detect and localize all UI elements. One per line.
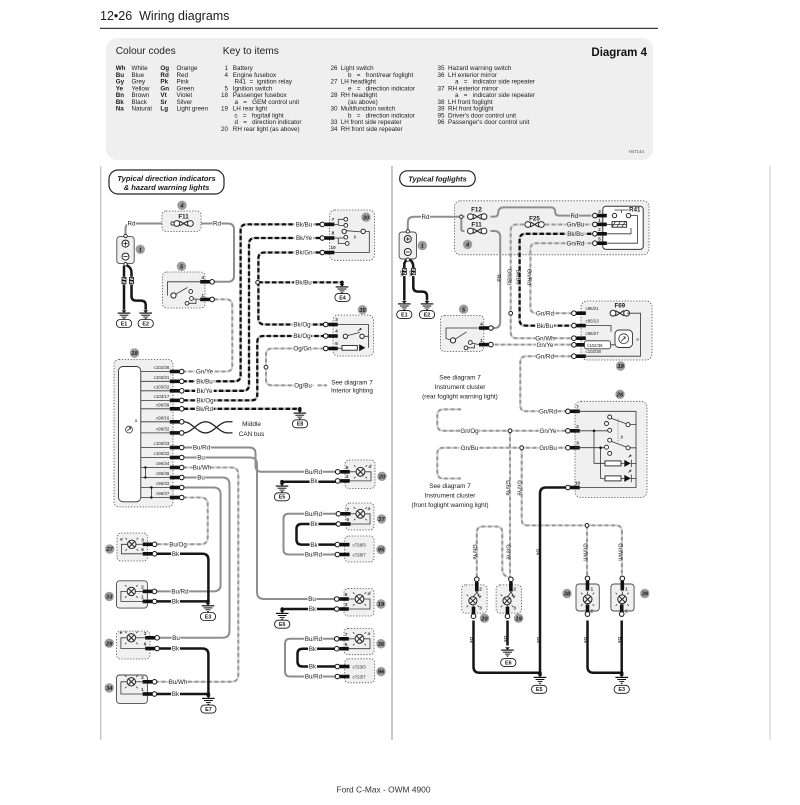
svg-text:5: 5 [335,341,338,347]
svg-text:96: 96 [437,119,445,126]
svg-text:Bu/Rd: Bu/Rd [171,589,189,596]
svg-text:35: 35 [359,308,366,314]
svg-text:Bu: Bu [197,455,205,462]
svg-text:26: 26 [330,65,338,72]
svg-text:33: 33 [106,595,113,601]
svg-text:39: 39 [642,592,649,598]
svg-text:Bk: Bk [616,637,622,644]
svg-text:30: 30 [363,215,370,221]
svg-text:Bu/Wh: Bu/Wh [169,679,188,686]
svg-text:Gn/Rd: Gn/Rd [536,310,554,317]
svg-text:c96/21: c96/21 [586,306,600,311]
svg-text:38: 38 [564,592,571,598]
svg-text:10: 10 [575,481,581,487]
svg-text:Bu/Rd: Bu/Rd [193,445,211,452]
svg-text:c95/13: c95/13 [586,319,600,324]
svg-text:10: 10 [330,245,336,251]
svg-text:6: 6 [141,547,144,553]
svg-text:Gn/Wh: Gn/Wh [581,543,587,560]
svg-text:Gn/Rd: Gn/Rd [539,409,557,416]
svg-text:Bk/Bu: Bk/Bu [537,323,554,330]
svg-text:Rd: Rd [422,214,430,221]
svg-text:RH front side repeater: RH front side repeater [341,126,403,133]
svg-text:2: 2 [576,424,579,430]
svg-text:e: e [120,538,123,543]
svg-text:36: 36 [437,72,445,79]
svg-text:34: 34 [106,686,113,692]
svg-text:Bk: Bk [310,478,318,485]
svg-text:Gn/Rd: Gn/Rd [525,269,531,285]
svg-text:a: a [368,507,371,512]
svg-text:c102/36: c102/36 [154,365,170,370]
svg-text:c99/32: c99/32 [156,427,170,432]
svg-text:Gn/Ye: Gn/Ye [540,428,558,435]
svg-text:Gn/Ye: Gn/Ye [471,544,477,559]
svg-text:c723/3: c723/3 [353,665,367,670]
svg-text:96: 96 [378,670,385,676]
svg-text:Diagram 4: Diagram 4 [591,47,647,59]
svg-text:RH rear light (as above): RH rear light (as above) [233,126,300,133]
svg-text:Typical direction indicators: Typical direction indicators [117,174,215,183]
svg-text:3: 3 [335,317,338,323]
svg-text:Gn/Ye: Gn/Ye [504,544,510,559]
svg-text:19: 19 [378,602,385,608]
svg-text:Gn/Ye: Gn/Ye [537,342,555,349]
svg-text:e: e [120,631,123,636]
svg-text:Bu/Rd: Bu/Rd [305,469,323,476]
svg-text:c100/32: c100/32 [154,451,170,456]
svg-text:Bk/Bu: Bk/Bu [515,270,521,285]
svg-text:2: 2 [513,587,516,593]
svg-text:2: 2 [141,675,144,681]
svg-text:Bk/Bu: Bk/Bu [196,379,213,386]
svg-text:F11: F11 [471,222,482,229]
svg-text:3: 3 [598,209,601,215]
svg-text:Bu/Rd: Bu/Rd [305,552,323,559]
svg-text:Bk: Bk [408,270,414,277]
svg-text:37: 37 [437,85,445,92]
svg-text:3: 3 [513,606,516,612]
svg-text:Bk: Bk [399,270,405,277]
svg-text:Bk: Bk [309,646,317,653]
svg-text:E6: E6 [505,661,512,667]
svg-text:c103/32: c103/32 [154,384,170,389]
svg-text:Gn/Bu: Gn/Bu [539,445,557,452]
svg-text:E3: E3 [205,614,212,620]
svg-text:Middle: Middle [242,421,261,428]
svg-text:b: b [620,434,623,440]
svg-text:c96/39: c96/39 [156,402,170,407]
svg-text:E2: E2 [142,321,149,327]
svg-text:Rd: Rd [495,274,501,281]
svg-text:E7: E7 [205,707,212,713]
svg-text:4: 4 [224,72,228,79]
svg-text:4: 4 [335,328,338,334]
svg-text:1: 1 [139,247,142,253]
svg-text:30: 30 [330,106,338,113]
svg-text:Natural: Natural [132,106,152,113]
svg-text:E5: E5 [279,495,286,501]
svg-text:c99/16: c99/16 [156,415,170,420]
svg-text:See diagram 7: See diagram 7 [439,375,481,382]
svg-text:4: 4 [480,321,483,327]
svg-text:Key to items: Key to items [223,46,279,57]
svg-text:27: 27 [330,79,338,86]
svg-text:Bk: Bk [172,646,180,653]
svg-text:c723/7: c723/7 [353,675,367,680]
svg-text:c96/34: c96/34 [156,461,170,466]
svg-text:3: 3 [144,631,147,637]
svg-text:E4: E4 [339,295,346,301]
svg-text:See diagram 7: See diagram 7 [429,483,471,490]
svg-text:F12: F12 [471,207,482,214]
svg-text:e: e [479,595,482,600]
svg-text:E8: E8 [297,422,304,428]
svg-text:c103/17: c103/17 [154,394,170,399]
svg-text:Na: Na [116,106,125,113]
svg-text:18: 18 [131,351,138,357]
svg-text:Bu: Bu [172,635,180,642]
svg-text:CAN bus: CAN bus [239,431,265,438]
svg-text:c96/37: c96/37 [156,491,170,496]
svg-text:6: 6 [345,592,348,598]
svg-text:Bu/Rd: Bu/Rd [305,636,323,643]
svg-text:& hazard warning lights: & hazard warning lights [124,183,210,192]
svg-text:3: 3 [346,474,349,480]
svg-text:F25: F25 [529,216,540,223]
svg-text:7: 7 [347,507,350,513]
svg-text:Gn/Ye: Gn/Ye [504,480,510,495]
svg-text:c102/30: c102/30 [586,349,602,354]
svg-text:Bu/Rd: Bu/Rd [305,674,323,681]
svg-text:18: 18 [617,364,624,370]
svg-text:Bk/Bu: Bk/Bu [295,280,312,287]
svg-text:See diagram 7: See diagram 7 [331,379,373,386]
svg-text:Bk: Bk [172,551,180,558]
svg-text:7: 7 [332,217,335,223]
svg-text:Rd: Rd [571,213,579,220]
svg-text:20: 20 [480,616,488,622]
svg-text:Gn/Bu: Gn/Bu [461,445,479,452]
svg-text:Bk/Ye: Bk/Ye [197,388,213,395]
svg-text:Bu/Wh: Bu/Wh [193,465,212,472]
svg-text:19: 19 [221,106,229,113]
svg-text:Passenger's door control unit: Passenger's door control unit [448,119,530,126]
svg-text:1: 1 [201,293,204,299]
svg-text:Bk: Bk [535,549,541,556]
svg-text:Light green: Light green [177,106,209,113]
svg-text:28: 28 [105,641,113,647]
svg-text:Og/Bu: Og/Bu [294,383,312,390]
svg-text:2: 2 [598,227,601,233]
svg-text:2: 2 [590,608,593,614]
svg-text:8: 8 [332,230,335,236]
svg-text:e: e [513,595,516,600]
svg-text:Colour codes: Colour codes [116,46,176,57]
svg-text:c728/7: c728/7 [353,553,367,558]
svg-text:Bk/Bu: Bk/Bu [296,222,313,229]
svg-text:(rear foglight warning light): (rear foglight warning light) [422,394,498,401]
svg-text:Bk: Bk [172,691,180,698]
svg-text:Gn/Rd: Gn/Rd [536,353,554,360]
svg-text:(front foglight warning light): (front foglight warning light) [411,502,488,509]
svg-text:3: 3 [141,538,144,544]
svg-text:Bu/Rd: Bu/Rd [305,511,323,518]
svg-text:Bu/Og: Bu/Og [169,542,187,549]
svg-text:Gn/Wh: Gn/Wh [616,543,622,560]
svg-text:Ford C-Max - OWM 4900: Ford C-Max - OWM 4900 [336,785,430,795]
svg-text:Interior lighting: Interior lighting [331,388,373,395]
svg-text:c103/31: c103/31 [154,375,170,380]
svg-text:c96/32: c96/32 [156,481,170,486]
svg-text:Bk: Bk [309,606,317,613]
svg-text:7: 7 [576,404,579,410]
svg-text:b: b [354,235,357,241]
svg-text:3: 3 [345,602,348,608]
svg-text:c100/33: c100/33 [154,441,170,446]
svg-text:Rd: Rd [213,221,221,228]
svg-text:Bk/Rd: Bk/Rd [196,406,213,413]
svg-text:E1: E1 [401,313,408,319]
svg-text:Instrument cluster: Instrument cluster [435,384,487,391]
svg-text:Bk: Bk [582,637,588,644]
svg-text:E3: E3 [618,687,625,693]
svg-text:37: 37 [378,517,385,523]
svg-text:Bu: Bu [197,475,205,482]
svg-text:Bk: Bk [310,542,318,549]
svg-text:R41: R41 [629,207,641,214]
svg-text:1: 1 [141,687,144,693]
svg-text:1: 1 [590,587,593,593]
svg-text:c96/36: c96/36 [156,471,170,476]
svg-text:c96/27: c96/27 [586,331,600,336]
svg-text:Instrument cluster: Instrument cluster [425,493,477,500]
svg-text:36: 36 [378,642,385,648]
svg-text:Bu: Bu [308,596,316,603]
svg-text:12•26 Wiring diagrams: 12•26 Wiring diagrams [100,9,229,23]
svg-text:5: 5 [598,237,601,243]
svg-text:20: 20 [378,474,386,480]
svg-text:1: 1 [625,587,628,593]
svg-text:4: 4 [201,275,204,281]
svg-text:Bk/Og: Bk/Og [293,333,311,340]
svg-text:E1: E1 [121,321,128,327]
svg-text:Bk: Bk [309,664,317,671]
svg-text:28: 28 [330,92,338,99]
svg-text:34: 34 [330,126,338,133]
svg-text:Bk/Og: Bk/Og [293,322,311,329]
svg-text:Typical foglights: Typical foglights [408,174,466,183]
svg-text:26: 26 [616,392,624,398]
svg-text:20: 20 [221,126,229,133]
svg-text:E6: E6 [279,622,286,628]
svg-text:5: 5 [345,642,348,648]
svg-text:3: 3 [479,606,482,612]
svg-text:Bk: Bk [535,637,541,644]
svg-text:18: 18 [221,92,229,99]
svg-text:a: a [368,632,371,637]
svg-text:5: 5 [347,517,350,523]
svg-text:Bk: Bk [172,599,180,606]
svg-text:2: 2 [141,585,144,591]
svg-text:F69: F69 [614,303,625,310]
svg-text:Gn/Bu: Gn/Bu [506,269,512,285]
svg-text:E5: E5 [536,687,543,693]
svg-text:Bk/Ye: Bk/Ye [296,235,312,242]
svg-text:2: 2 [625,608,628,614]
svg-text:Rd: Rd [128,221,136,228]
svg-text:19: 19 [515,616,522,622]
svg-text:1: 1 [421,244,424,250]
svg-text:Gn/Ye: Gn/Ye [516,480,522,495]
svg-text:Gn/Ye: Gn/Ye [196,369,214,376]
svg-text:Gn/Og: Gn/Og [460,428,479,435]
svg-text:Bk: Bk [468,637,474,644]
svg-text:Bk: Bk [310,521,318,528]
svg-text:95: 95 [378,548,385,554]
svg-text:7: 7 [345,632,348,638]
svg-text:Lg: Lg [160,106,168,113]
svg-text:H47144: H47144 [629,149,645,154]
svg-text:6: 6 [346,465,349,471]
svg-text:c728/3: c728/3 [353,543,367,548]
svg-text:Bk/Og: Bk/Og [196,398,214,405]
svg-text:1: 1 [480,338,483,344]
svg-text:Gn/Bu: Gn/Bu [567,222,585,229]
svg-text:1: 1 [598,218,601,224]
svg-text:Gn/Rd: Gn/Rd [567,240,585,247]
svg-text:F11: F11 [178,213,189,220]
svg-text:a: a [636,338,639,343]
svg-text:c102/36: c102/36 [587,343,603,348]
svg-text:1: 1 [141,595,144,601]
svg-text:Bk/Gn: Bk/Gn [295,250,313,257]
svg-text:6: 6 [144,642,147,648]
svg-text:3: 3 [576,441,579,447]
svg-text:27: 27 [105,547,113,553]
svg-text:Bk: Bk [502,636,508,643]
svg-text:Og/Gn: Og/Gn [293,346,312,353]
svg-text:2: 2 [479,587,482,593]
svg-text:Bk/Bu: Bk/Bu [567,231,584,238]
svg-text:E2: E2 [424,313,431,319]
